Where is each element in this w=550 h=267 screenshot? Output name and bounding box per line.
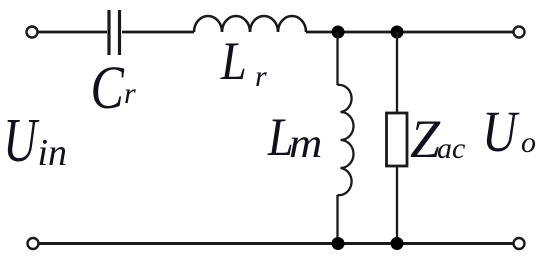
node C (bottom junction of Lm): [332, 237, 345, 250]
svg-text:L: L: [220, 31, 247, 91]
label Zac: [410, 109, 465, 169]
svg-text:in: in: [38, 132, 68, 174]
wire: Lm down to node C: [336, 195, 338, 240]
label Uin: [3, 106, 67, 175]
svg-text:U: U: [3, 106, 39, 175]
wire: top-left terminal to capacitor: [38, 31, 107, 34]
terminal input top (+): [27, 27, 38, 38]
svg-text:m: m: [289, 120, 322, 167]
label Uo: [482, 100, 536, 164]
inductor Lr: [194, 16, 306, 32]
node B (top junction of Zac): [391, 26, 404, 39]
terminal output bottom (-): [514, 238, 525, 249]
svg-text:U: U: [482, 100, 520, 164]
wire: inductor Lr to output terminal: [306, 31, 514, 34]
node A (top junction of Lm): [332, 26, 345, 39]
label Lr: [220, 31, 267, 93]
wire: node A down to Lm: [336, 32, 338, 85]
terminal input bottom (-): [28, 238, 39, 249]
svg-text:r: r: [255, 60, 267, 93]
wire: node B down to Zac: [396, 32, 398, 113]
svg-text:o: o: [521, 126, 536, 159]
wire: capacitor to inductor Lr: [122, 31, 194, 34]
wire: bottom rail: [39, 242, 513, 245]
label Cr: [91, 54, 137, 122]
impedance Zac (box): [387, 113, 408, 166]
label Lm: [267, 107, 322, 167]
svg-text:ac: ac: [437, 132, 465, 165]
node D (bottom junction of Zac): [391, 237, 404, 250]
wire: Zac down to node D: [396, 166, 398, 240]
svg-text:r: r: [124, 77, 136, 110]
capacitor Cr: [109, 10, 120, 55]
terminal output top (+): [514, 27, 525, 38]
svg-text:C: C: [91, 54, 125, 122]
inductor Lm: [338, 85, 354, 195]
